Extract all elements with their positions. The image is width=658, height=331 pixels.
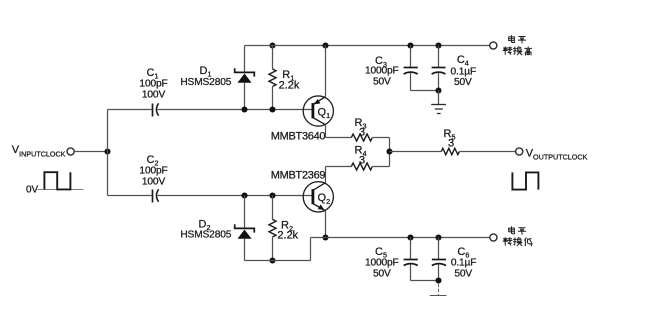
resistor R2: [269, 219, 276, 237]
svg-text:100pF: 100pF: [139, 79, 167, 90]
junction Q2 emitter rail: [322, 234, 328, 240]
wire R4 left: [326, 166, 352, 168]
resistor R4: [351, 163, 372, 170]
junction C3 top: [407, 42, 413, 48]
wire D2 vertical top: [244, 196, 246, 229]
input waveform baseline: [38, 189, 84, 191]
wire input vertical: [107, 110, 109, 196]
capacitor C2: [108, 189, 159, 202]
wire R3 right: [373, 137, 390, 139]
svg-text:MMBT2369: MMBT2369: [271, 169, 326, 181]
svg-text:50V: 50V: [454, 77, 472, 88]
capacitor C6: [432, 238, 446, 281]
label R3: [355, 117, 367, 139]
wire R4 right: [373, 166, 390, 168]
wire bottom loop vertical: [310, 238, 312, 261]
wire C1 left: [108, 109, 152, 111]
wire C2 to Q2 base: [158, 195, 313, 197]
wire to ground bottom: [438, 284, 440, 296]
wire input to junction: [74, 151, 107, 153]
ground top: [431, 105, 446, 114]
wire D1 vertical bottom: [244, 83, 246, 110]
svg-text:50V: 50V: [454, 269, 472, 280]
svg-text:50V: 50V: [373, 268, 391, 279]
junction ground top: [435, 87, 441, 93]
capacitor C3: [404, 46, 418, 91]
junction Q1 emitter rail: [322, 42, 328, 48]
diode D2: [235, 224, 255, 239]
wire R1 bottom: [272, 87, 274, 110]
resistor R1: [269, 69, 276, 87]
svg-text:1000pF: 1000pF: [365, 66, 399, 77]
junction R2 bottom: [269, 257, 275, 263]
label C1: [139, 67, 167, 101]
label D2: [180, 218, 231, 240]
wire node to R5: [390, 151, 442, 153]
resistor R5: [441, 148, 459, 154]
svg-text:0.1µF: 0.1µF: [451, 66, 477, 77]
wire R3 left: [326, 137, 352, 139]
svg-text:HSMS2805: HSMS2805: [180, 230, 231, 241]
junction C5 top: [407, 234, 413, 240]
label R4: [355, 145, 367, 167]
diode D1: [235, 68, 255, 83]
label R5: [444, 128, 456, 149]
wire Q2 collector up: [325, 167, 327, 183]
capacitor C4: [432, 46, 446, 91]
terminal input: [67, 148, 74, 155]
svg-text:HSMS2805: HSMS2805: [180, 77, 231, 88]
junction ground bottom: [435, 277, 441, 283]
wire R2 bottom: [272, 237, 274, 261]
resistor R3: [351, 134, 372, 141]
label C2: [139, 154, 167, 187]
junction D2 top: [241, 192, 247, 198]
wire join R3 R4: [389, 138, 391, 167]
svg-text:Q2: Q2: [318, 192, 331, 206]
junction R2 top: [269, 192, 275, 198]
label R1: [279, 69, 300, 91]
svg-text:50V: 50V: [373, 77, 391, 88]
wire R5 to output: [459, 151, 515, 153]
capacitor C5: [404, 238, 418, 281]
terminal output: [516, 148, 523, 155]
svg-text:3: 3: [448, 137, 454, 149]
transistor Q1: [303, 96, 333, 126]
ground bottom: [430, 295, 447, 297]
label C4: [451, 54, 477, 88]
svg-text:MMBT3640: MMBT3640: [271, 131, 326, 143]
wire C5 C6 bottom join: [411, 280, 439, 282]
svg-text:100V: 100V: [142, 90, 166, 101]
terminal level-shift-high: [490, 42, 497, 49]
wire Q2 emitter down: [325, 211, 327, 238]
junction C6 top: [435, 234, 441, 240]
svg-text:VOUTPUTCLOCK: VOUTPUTCLOCK: [526, 147, 588, 161]
svg-text:100V: 100V: [142, 176, 166, 187]
svg-text:2.2k: 2.2k: [277, 230, 298, 242]
wire top rail: [245, 45, 490, 47]
wire R1 top: [272, 46, 274, 70]
junction C4 top: [435, 42, 441, 48]
wire Q1 emitter to rail: [325, 46, 327, 97]
wire Q1 collector down: [325, 125, 327, 138]
wire D1 vertical top: [244, 46, 246, 73]
svg-text:VINPUTCLOCK: VINPUTCLOCK: [12, 144, 66, 158]
wire to ground top: [438, 91, 440, 105]
transistor Q2: [303, 182, 333, 212]
junction R1 top: [269, 42, 275, 48]
svg-text:2.2k: 2.2k: [279, 79, 300, 91]
junction D1 bottom: [241, 106, 247, 112]
label level-shift-high (Chinese): [503, 36, 531, 56]
wire C3 C4 bottom join: [411, 90, 439, 92]
label D1: [180, 65, 231, 88]
input waveform: [44, 172, 70, 189]
label C6: [451, 246, 477, 280]
terminal level-shift-low: [490, 234, 497, 241]
wire bottom loop horizontal: [245, 260, 311, 262]
wire R2 top: [272, 196, 274, 220]
svg-text:1000pF: 1000pF: [365, 257, 399, 268]
svg-text:100pF: 100pF: [139, 166, 167, 177]
svg-text:0.1µF: 0.1µF: [451, 258, 477, 269]
svg-text:3: 3: [359, 126, 365, 138]
junction R1 bottom: [269, 106, 275, 112]
capacitor C1: [153, 103, 159, 116]
label level-shift-low (Chinese): [503, 227, 532, 246]
label C3: [365, 55, 399, 88]
wire D2 vertical bottom: [244, 239, 246, 261]
junction output node: [386, 148, 392, 154]
svg-text:0V: 0V: [26, 184, 39, 195]
junction input node: [104, 148, 110, 154]
output waveform: [512, 172, 538, 189]
label C5: [365, 246, 399, 280]
label R2: [277, 219, 298, 241]
wire C1 to Q1 base: [158, 109, 313, 111]
svg-text:3: 3: [359, 155, 365, 167]
wire bottom rail: [311, 237, 490, 239]
svg-text:Q1: Q1: [318, 106, 331, 120]
